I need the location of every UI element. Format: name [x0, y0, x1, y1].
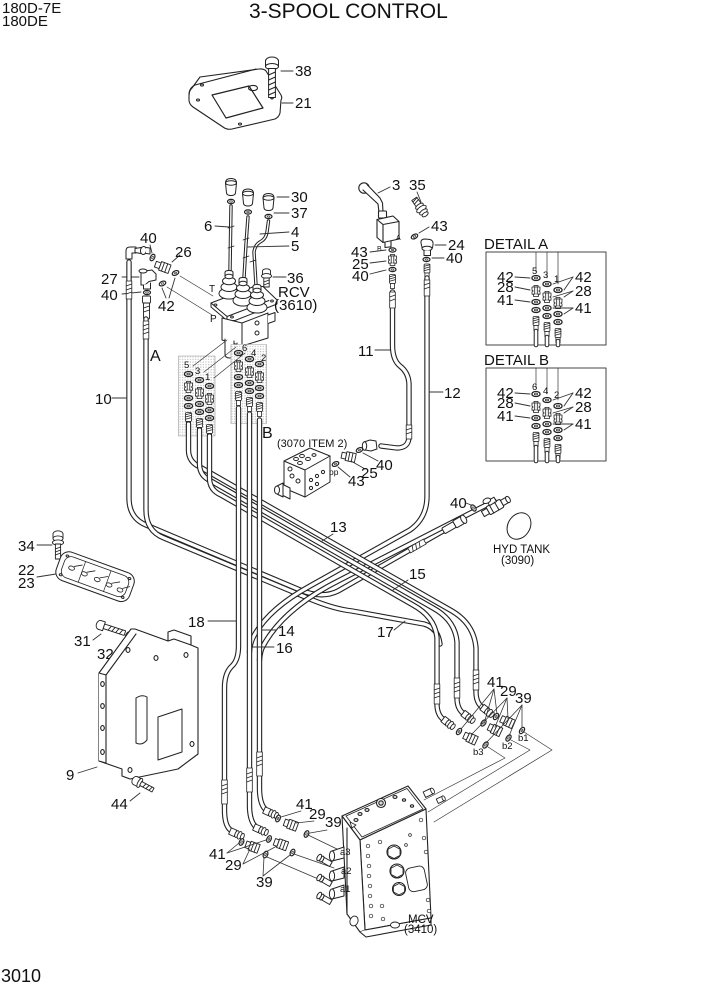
o-ring 40 [470, 504, 477, 512]
svg-text:pp: pp [329, 467, 339, 477]
svg-text:44: 44 [111, 796, 128, 813]
bottom left ports [349, 915, 360, 927]
svg-text:(3070 ITEM 2): (3070 ITEM 2) [277, 438, 347, 450]
svg-text:a1: a1 [340, 884, 351, 895]
svg-text:26: 26 [175, 244, 192, 261]
svg-text:28: 28 [575, 283, 592, 300]
elbow tip hose 14 [262, 806, 279, 819]
hose 10 (RCV to hyd tank) [129, 262, 443, 595]
o-ring 43 right [410, 233, 418, 240]
svg-text:11: 11 [358, 343, 374, 360]
svg-text:DETAIL A: DETAIL A [484, 236, 548, 253]
elbow 24 [421, 239, 433, 256]
tee fittings [477, 488, 512, 518]
svg-text:29: 29 [309, 806, 326, 823]
part 35 stack [410, 196, 431, 219]
svg-text:16: 16 [276, 640, 293, 657]
knob 30 x3 [226, 179, 275, 211]
levers 6,4,5 (rods) [228, 206, 269, 285]
boot 1 [219, 288, 239, 299]
svg-text:39: 39 [256, 874, 273, 891]
svg-text:b3: b3 [473, 747, 484, 758]
svg-text:3: 3 [543, 270, 548, 281]
svg-text:180DE: 180DE [2, 13, 48, 30]
long thin leaders from 42 o-rings to RCV T/P [180, 276, 213, 296]
svg-text:40: 40 [446, 250, 463, 267]
RCV valve assembly [211, 271, 277, 364]
svg-text:A: A [396, 235, 401, 242]
washer 32 [125, 632, 134, 643]
lone o-rings b3 b2 b1 [482, 741, 489, 749]
svg-text:5: 5 [184, 360, 189, 371]
hyd tank fitting group [441, 488, 536, 544]
svg-text:4: 4 [543, 386, 548, 397]
hose 12 (lever valve to MCV, becomes 16 curve) [250, 278, 428, 652]
svg-text:5: 5 [291, 238, 299, 255]
elbow fitting top of hose 10 [126, 246, 150, 259]
elbow tip hose 16 [252, 823, 269, 836]
svg-text:DETAIL B: DETAIL B [484, 352, 549, 369]
left face [342, 816, 365, 932]
svg-text:14: 14 [278, 623, 295, 640]
labels 40 25 43 at manifold [363, 453, 378, 461]
washer 33 [140, 642, 148, 651]
crimp top of hose 11 and 12 [390, 275, 396, 289]
svg-text:41: 41 [209, 846, 226, 863]
svg-text:38: 38 [295, 63, 312, 80]
tank disc [502, 508, 535, 543]
hatched zone B [231, 345, 267, 424]
svg-text:43: 43 [431, 218, 448, 235]
hose 14 upper curve (from tank tee area to vertical) [260, 501, 495, 660]
hose 18 (zone B col6 to MCV a1, with jog) [225, 408, 239, 831]
svg-text:B: B [262, 425, 273, 442]
plate 22/23 [53, 549, 137, 604]
svg-text:40: 40 [352, 268, 369, 285]
svg-text:35: 35 [409, 177, 426, 194]
small holes right face [366, 818, 431, 921]
svg-text:23: 23 [18, 575, 35, 592]
label 35 [417, 192, 421, 202]
a3/a2/a1 bosses on left face [316, 847, 344, 905]
o-ring 43 at manifold [331, 461, 339, 468]
hose 16 (zone B col4 to MCV a2) [250, 414, 256, 826]
svg-text:37: 37 [291, 205, 308, 222]
svg-text:41: 41 [497, 292, 514, 309]
manifold block (3070 ITEM 2) [275, 448, 331, 499]
svg-text:40: 40 [450, 495, 467, 512]
hose 15 (zone A col3 to MCV b2) [200, 430, 465, 714]
svg-text:40: 40 [376, 457, 393, 474]
body under flange [222, 313, 268, 346]
svg-text:b2: b2 [502, 741, 513, 752]
svg-text:41: 41 [497, 408, 514, 425]
svg-text:b1: b1 [518, 733, 529, 744]
hose 17 (zone A col1 to MCV b3) [210, 436, 445, 720]
svg-text:(3410): (3410) [404, 924, 437, 936]
elbow end of hose 11 [362, 440, 377, 451]
boot 3 [247, 302, 267, 313]
svg-text:3010: 3010 [1, 966, 41, 986]
fitting 26 [154, 260, 171, 274]
side plate on right face [405, 865, 429, 892]
o-rings 37 under knobs [228, 199, 235, 203]
svg-text:29: 29 [225, 857, 242, 874]
svg-text:A: A [150, 348, 161, 365]
svg-text:21: 21 [295, 95, 312, 112]
o-ring + nipple sets (a) [238, 838, 245, 846]
lever valve 3 with handle [359, 183, 399, 248]
svg-text:6: 6 [204, 218, 212, 235]
label 21 [282, 102, 293, 104]
svg-text:3: 3 [195, 366, 200, 377]
svg-text:12: 12 [444, 385, 461, 402]
svg-text:(3090): (3090) [501, 555, 534, 567]
hatched zone A [179, 356, 216, 436]
elbow 27 [139, 269, 156, 289]
svg-text:43: 43 [348, 473, 365, 490]
svg-text:1: 1 [205, 372, 210, 383]
svg-text:a3: a3 [340, 847, 351, 858]
o-ring + nipple sets (b) [455, 727, 462, 735]
right face [360, 809, 431, 930]
callout polylines b3/b2/b1 to MCV [424, 747, 505, 800]
svg-text:10: 10 [95, 391, 112, 408]
svg-text:41: 41 [575, 300, 592, 317]
bottom skirt [360, 918, 431, 937]
svg-text:40: 40 [101, 287, 118, 304]
o-ring 40 under 24 [423, 257, 430, 261]
hose 13 (zone A col5 to MCV b1) [189, 424, 484, 708]
svg-text:a2: a2 [341, 866, 352, 877]
svg-text:(3610): (3610) [274, 297, 317, 314]
svg-text:34: 34 [18, 538, 35, 555]
svg-text:T: T [209, 284, 215, 295]
cover plate 21 [189, 69, 282, 129]
svg-text:30: 30 [291, 189, 308, 206]
svg-text:3: 3 [392, 177, 400, 194]
svg-text:42: 42 [158, 298, 175, 315]
o-ring 40 under 27 [144, 290, 151, 294]
o-ring 43 left / fitting 25 / o-ring 40 under valve [389, 248, 396, 252]
svg-text:40: 40 [140, 230, 157, 247]
lone o-rings 39 (a) [262, 850, 269, 858]
svg-text:13: 13 [330, 519, 347, 536]
svg-text:15: 15 [409, 566, 426, 583]
label 3 [378, 187, 390, 193]
label 40 (top, hose10 elbow) [150, 245, 152, 253]
svg-text:27: 27 [101, 271, 118, 288]
fitting 25 at manifold [341, 451, 357, 463]
svg-text:18: 18 [188, 614, 205, 631]
top plate [342, 786, 426, 840]
hose 11 (lever valve to manifold) [381, 292, 409, 448]
svg-text:3-SPOOL CONTROL: 3-SPOOL CONTROL [249, 0, 448, 23]
svg-text:28: 28 [575, 399, 592, 416]
bolt 38 [266, 57, 279, 98]
leader lines zone numbers to RCV ports [193, 340, 227, 366]
labels 30 37 4 5 6 [277, 196, 289, 198]
fitting 36 [262, 269, 272, 287]
bolt 44 [130, 775, 155, 795]
o-ring 40 at manifold [355, 447, 363, 454]
long callout lines to MCV bosses [267, 857, 330, 884]
svg-text:39: 39 [325, 814, 342, 831]
boot 2 [233, 295, 253, 306]
elbow tip hose 18 [228, 827, 245, 840]
svg-text:17: 17 [377, 624, 394, 641]
lower port cylinders [225, 339, 234, 358]
svg-text:39: 39 [515, 690, 532, 707]
plugs at top right corner [423, 787, 435, 797]
hose from elbow 27 [146, 319, 440, 644]
label 38 [281, 70, 293, 72]
crimp collars on hoses [126, 280, 479, 804]
o-rings 42 [171, 270, 179, 277]
bolt 31 (angled) [95, 619, 126, 637]
svg-text:41: 41 [575, 416, 592, 433]
svg-text:31: 31 [74, 633, 91, 650]
crimp top of second hose [143, 296, 151, 319]
elbow tips 13/15/17 [480, 704, 496, 719]
bolt 34 [52, 531, 63, 559]
svg-text:9: 9 [66, 767, 74, 784]
flange plate [211, 287, 277, 321]
svg-text:P: P [210, 314, 217, 325]
top plate details [377, 799, 386, 808]
svg-text:B: B [377, 246, 382, 253]
hose 14 lower vertical (to MCV a3) [260, 420, 266, 809]
crimp fitting on hose end [441, 514, 468, 535]
right face big bores [387, 845, 401, 859]
bracket 9 [99, 629, 198, 779]
